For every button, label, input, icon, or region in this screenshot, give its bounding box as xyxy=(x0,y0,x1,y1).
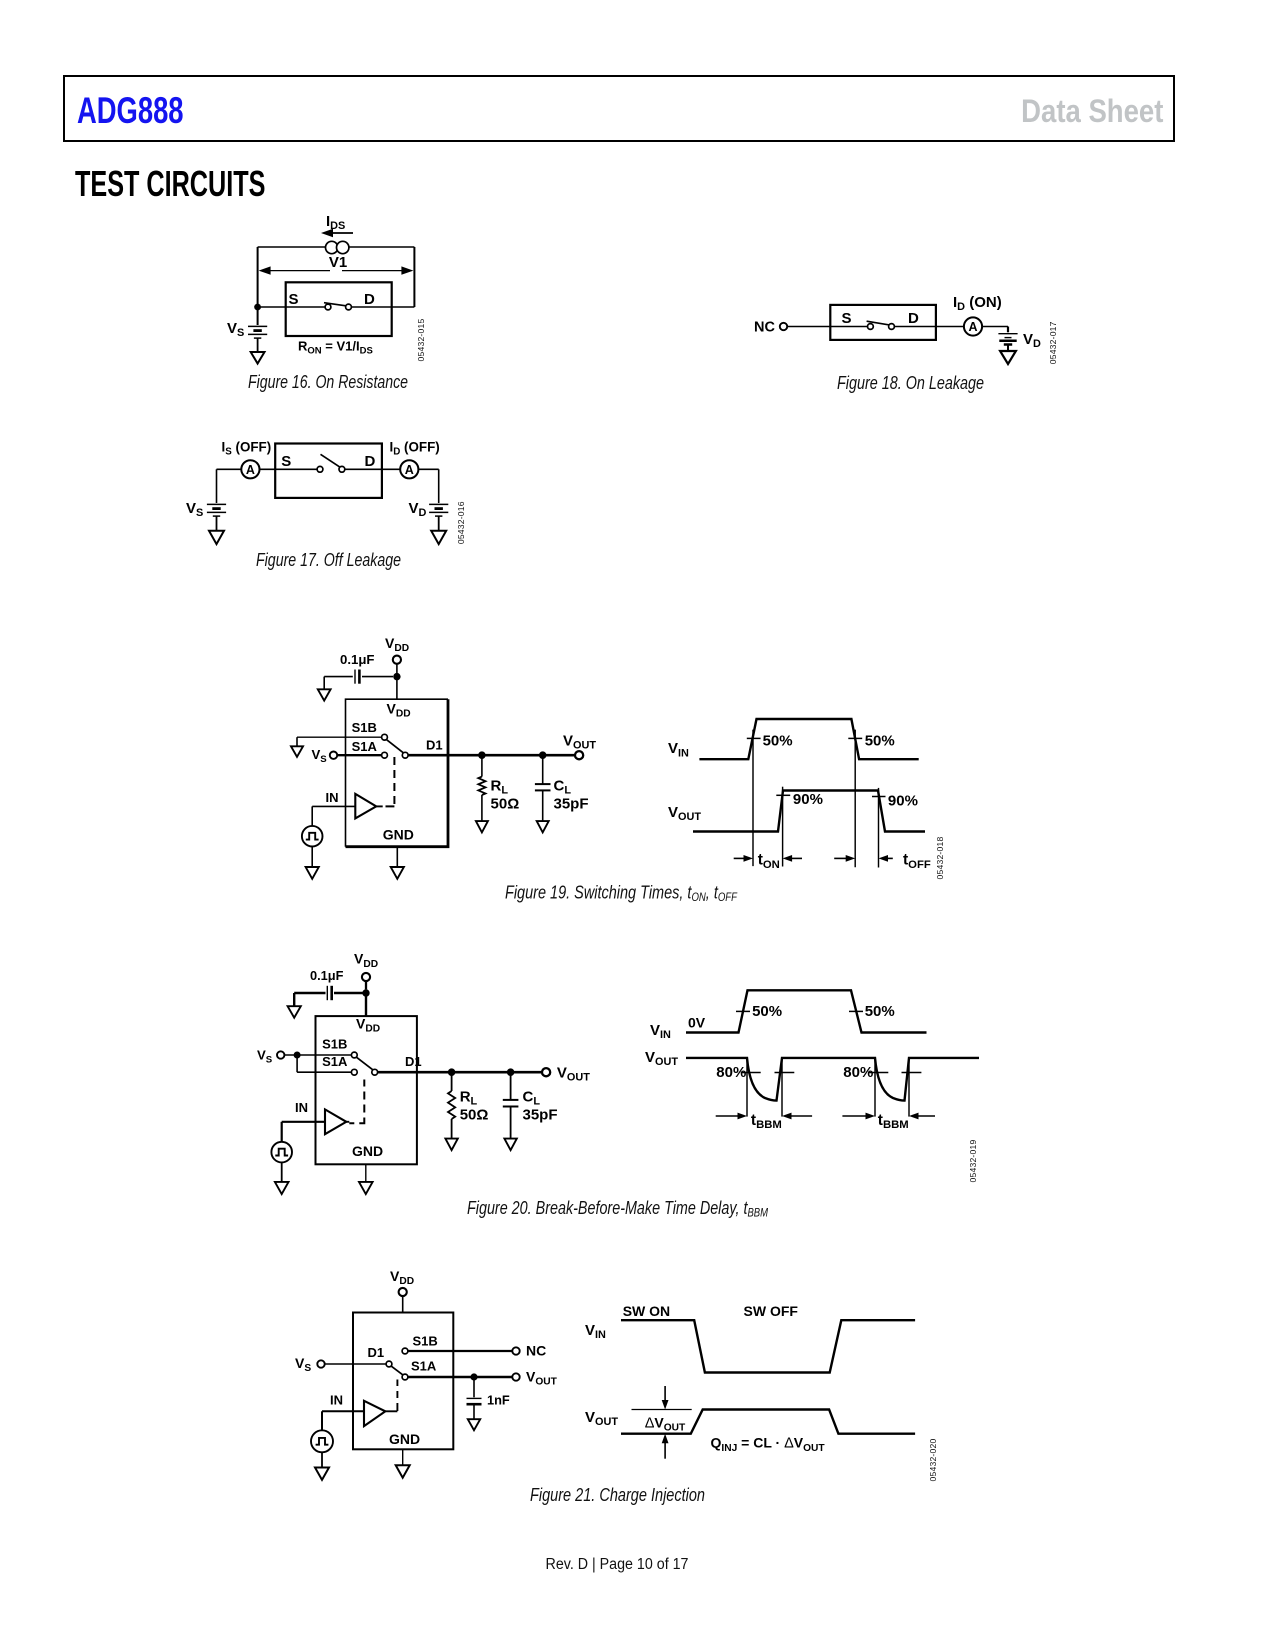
svg-text:0.1μF: 0.1μF xyxy=(310,968,344,983)
svg-text:GND: GND xyxy=(352,1143,383,1159)
svg-text:D: D xyxy=(908,310,919,327)
svg-text:VD: VD xyxy=(1023,331,1041,350)
svg-text:80%: 80% xyxy=(843,1064,873,1081)
svg-text:S1A: S1A xyxy=(322,1054,348,1069)
svg-text:VS: VS xyxy=(186,500,203,519)
svg-text:CL: CL xyxy=(523,1088,541,1107)
svg-text:S1B: S1B xyxy=(322,1036,347,1051)
svg-text:Figure 17. Off Leakage: Figure 17. Off Leakage xyxy=(256,550,401,570)
svg-text:VS: VS xyxy=(295,1355,311,1374)
svg-text:0.1μF: 0.1μF xyxy=(340,652,374,667)
svg-text:RL: RL xyxy=(460,1088,478,1107)
svg-text:VIN: VIN xyxy=(668,740,689,759)
svg-text:05432-016: 05432-016 xyxy=(456,501,466,544)
svg-text:GND: GND xyxy=(389,1431,420,1447)
svg-text:S: S xyxy=(842,310,852,327)
svg-text:VIN: VIN xyxy=(585,1322,606,1341)
svg-text:GND: GND xyxy=(383,826,414,842)
svg-text:50Ω: 50Ω xyxy=(491,796,520,813)
svg-text:50%: 50% xyxy=(763,732,793,749)
svg-text:Figure 21. Charge Injection: Figure 21. Charge Injection xyxy=(530,1485,705,1505)
svg-text:ID (OFF): ID (OFF) xyxy=(390,440,440,458)
svg-text:VD: VD xyxy=(409,500,427,519)
svg-text:A: A xyxy=(246,463,255,477)
svg-text:S: S xyxy=(289,291,299,308)
svg-text:IN: IN xyxy=(326,790,339,805)
svg-text:S1B: S1B xyxy=(413,1333,438,1348)
svg-text:SW OFF: SW OFF xyxy=(744,1303,799,1319)
svg-text:D1: D1 xyxy=(405,1054,422,1069)
svg-text:50%: 50% xyxy=(865,732,895,749)
svg-text:IDS: IDS xyxy=(326,213,345,232)
svg-text:1nF: 1nF xyxy=(487,1393,510,1408)
svg-text:S1B: S1B xyxy=(352,720,377,735)
svg-text:Figure 18. On Leakage: Figure 18. On Leakage xyxy=(837,373,984,393)
svg-text:35pF: 35pF xyxy=(554,796,589,813)
svg-text:A: A xyxy=(968,320,977,334)
svg-text:50%: 50% xyxy=(752,1003,782,1020)
svg-text:Figure 16. On Resistance: Figure 16. On Resistance xyxy=(248,372,408,392)
svg-text:tBBM: tBBM xyxy=(751,1112,782,1131)
svg-text:ID (ON): ID (ON) xyxy=(953,294,1002,313)
svg-text:50%: 50% xyxy=(865,1003,895,1020)
svg-text:tOFF: tOFF xyxy=(903,852,931,871)
svg-text:IN: IN xyxy=(330,1393,343,1408)
svg-text:QINJ = CL · ΔVOUT: QINJ = CL · ΔVOUT xyxy=(711,1435,826,1454)
svg-text:Figure 19. Switching Times, tO: Figure 19. Switching Times, tON, tOFF xyxy=(505,883,738,905)
svg-text:0V: 0V xyxy=(688,1015,706,1031)
svg-text:VOUT: VOUT xyxy=(563,732,596,751)
svg-text:VOUT: VOUT xyxy=(645,1049,678,1068)
svg-text:05432-019: 05432-019 xyxy=(968,1140,978,1183)
svg-text:VOUT: VOUT xyxy=(585,1409,618,1428)
svg-text:CL: CL xyxy=(554,778,572,797)
svg-text:05432-015: 05432-015 xyxy=(416,319,426,362)
svg-text:D: D xyxy=(365,453,376,470)
svg-text:VOUT: VOUT xyxy=(668,804,701,823)
svg-text:05432-017: 05432-017 xyxy=(1048,321,1058,364)
svg-text:D1: D1 xyxy=(368,1345,385,1360)
svg-text:VDD: VDD xyxy=(354,951,378,970)
svg-text:VDD: VDD xyxy=(356,1015,380,1034)
svg-text:VDD: VDD xyxy=(387,700,411,719)
svg-text:VDD: VDD xyxy=(385,635,409,654)
svg-text:RON = V1/IDS: RON = V1/IDS xyxy=(298,339,373,357)
svg-text:S: S xyxy=(281,453,291,470)
svg-text:VOUT: VOUT xyxy=(557,1064,590,1083)
svg-text:tON: tON xyxy=(758,852,780,871)
svg-text:S1A: S1A xyxy=(352,739,378,754)
svg-text:VS: VS xyxy=(227,320,244,339)
svg-text:S1A: S1A xyxy=(411,1358,437,1373)
svg-text:VDD: VDD xyxy=(390,1268,414,1287)
svg-text:05432-018: 05432-018 xyxy=(935,837,945,880)
svg-text:SW ON: SW ON xyxy=(623,1303,670,1319)
svg-text:90%: 90% xyxy=(888,792,918,809)
svg-text:IS (OFF): IS (OFF) xyxy=(222,440,272,458)
svg-text:05432-020: 05432-020 xyxy=(928,1439,938,1482)
svg-text:50Ω: 50Ω xyxy=(460,1106,489,1123)
svg-text:VIN: VIN xyxy=(650,1022,671,1041)
svg-text:ΔVOUT: ΔVOUT xyxy=(645,1414,686,1433)
svg-text:V1: V1 xyxy=(329,254,347,271)
svg-text:RL: RL xyxy=(491,778,509,797)
svg-text:80%: 80% xyxy=(716,1064,746,1081)
svg-text:NC: NC xyxy=(526,1343,546,1359)
svg-text:NC: NC xyxy=(754,320,775,336)
svg-text:tBBM: tBBM xyxy=(878,1112,909,1131)
svg-text:35pF: 35pF xyxy=(523,1106,558,1123)
svg-text:IN: IN xyxy=(295,1100,308,1115)
svg-text:VOUT: VOUT xyxy=(526,1369,558,1388)
svg-text:D1: D1 xyxy=(426,737,443,752)
svg-text:Figure 20. Break-Before-Make T: Figure 20. Break-Before-Make Time Delay,… xyxy=(467,1198,768,1220)
svg-text:A: A xyxy=(405,463,414,477)
svg-text:VS: VS xyxy=(257,1048,273,1066)
svg-text:VS: VS xyxy=(312,747,328,765)
svg-text:90%: 90% xyxy=(793,791,823,808)
svg-text:D: D xyxy=(364,291,375,308)
